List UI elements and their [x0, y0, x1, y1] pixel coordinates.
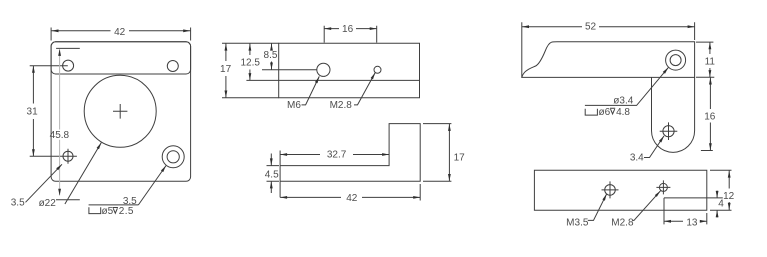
- svg-text:13: 13: [686, 217, 698, 228]
- bracket profile (right top view): [522, 42, 695, 78]
- svg-text:ø5: ø5: [102, 206, 114, 217]
- svg-text:11: 11: [705, 57, 716, 68]
- svg-text:ø22: ø22: [39, 198, 57, 209]
- step edge lines: [664, 198, 723, 210]
- svg-text:16: 16: [342, 24, 354, 35]
- dim 52: [522, 22, 695, 78]
- svg-text:17: 17: [454, 152, 466, 163]
- dim 32.7: [280, 150, 389, 161]
- leader M6: [287, 76, 319, 111]
- svg-text:42: 42: [114, 27, 126, 38]
- svg-text:M3.5: M3.5: [566, 218, 589, 229]
- dim 16 (middle top): [324, 24, 377, 42]
- leader M3.5: [566, 194, 607, 229]
- hole top-right: [167, 61, 178, 72]
- svg-text:3.4: 3.4: [630, 152, 644, 163]
- hole top-left: [63, 60, 74, 71]
- svg-text:45.8: 45.8: [50, 130, 70, 141]
- svg-text:31: 31: [27, 107, 39, 118]
- leader M2.8 (bottom view): [611, 191, 660, 229]
- hole M3.5: [602, 181, 619, 198]
- svg-text:12: 12: [723, 191, 735, 202]
- dim 31 (left view left): [27, 66, 77, 157]
- svg-text:M6: M6: [287, 100, 301, 111]
- svg-text:3.5: 3.5: [11, 198, 25, 209]
- counterbore callout ø6 depth 4.8: [585, 107, 630, 118]
- counterbore hole bottom-right: [162, 146, 184, 168]
- dim 42 (left view top): [51, 27, 191, 41]
- dim 11: [696, 42, 715, 77]
- svg-text:4: 4: [718, 199, 724, 210]
- svg-text:42: 42: [346, 193, 358, 204]
- hole M2.8: [374, 66, 381, 73]
- svg-text:32.7: 32.7: [327, 150, 347, 161]
- flange band: [51, 42, 191, 74]
- dim 12.5: [240, 43, 260, 80]
- svg-text:12.5: 12.5: [240, 58, 260, 69]
- counterbore hole ø3.4/ø6: [666, 50, 686, 70]
- dim 13: [664, 210, 707, 228]
- leader ø3.4: [585, 67, 669, 106]
- counterbore callout 3.5 / ø5 depth 2.5: [89, 166, 166, 218]
- hole M6: [317, 63, 330, 76]
- svg-text:4.5: 4.5: [265, 169, 279, 180]
- svg-text:M2.8: M2.8: [330, 100, 353, 111]
- bottom view rectangle (right bottom): [534, 170, 706, 210]
- hanging tab: [652, 77, 695, 152]
- svg-text:ø6: ø6: [599, 107, 611, 118]
- L-profile outline (middle bottom): [280, 124, 420, 198]
- svg-text:17: 17: [220, 64, 232, 75]
- plate outline (top view, left part): [51, 42, 191, 182]
- svg-text:M2.8: M2.8: [611, 218, 634, 229]
- dim 42 (middle bottom): [280, 184, 420, 204]
- leader 3.5 (bottom-left hole): [11, 164, 62, 208]
- svg-text:ø3.4: ø3.4: [613, 96, 633, 107]
- dim 8.5: [264, 43, 278, 70]
- inner edge line: [246, 79, 419, 81]
- front view rectangle (middle top): [279, 43, 420, 98]
- dim 16 (right): [701, 78, 716, 151]
- leader M2.8: [330, 73, 376, 112]
- svg-text:16: 16: [704, 111, 716, 122]
- svg-text:2.5: 2.5: [119, 206, 134, 217]
- svg-text:4.8: 4.8: [616, 107, 630, 118]
- svg-text:8.5: 8.5: [264, 50, 278, 61]
- dim 17 (middle bottom right): [423, 124, 465, 182]
- leader 3.4 (tab hole): [630, 136, 664, 163]
- hole M2.8 (bottom view): [656, 180, 670, 194]
- dim 12: [710, 170, 735, 210]
- dim 45.8 (gray line): [50, 48, 80, 195]
- dim 4.5: [265, 154, 279, 194]
- leader ø22: [39, 143, 102, 210]
- dim 17 (middle left): [220, 43, 279, 98]
- svg-text:52: 52: [585, 22, 597, 33]
- tab hole 3.4: [660, 122, 678, 140]
- M6 center extension line: [262, 69, 317, 71]
- hole bottom-left: [63, 149, 73, 164]
- bore circle ø22: [84, 75, 156, 147]
- dim 4: [716, 191, 725, 218]
